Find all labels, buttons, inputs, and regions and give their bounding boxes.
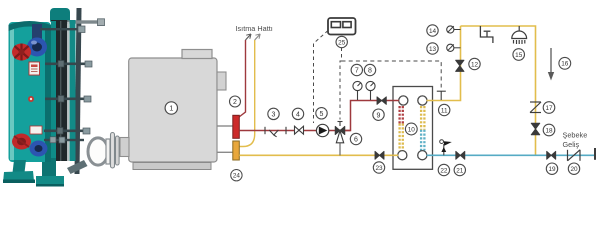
label 15 <box>513 49 525 61</box>
label 18 <box>543 124 555 136</box>
label 21 <box>454 164 465 175</box>
label 8 <box>364 64 375 75</box>
valve 19 <box>547 151 556 159</box>
valve 6 bottom connection wire <box>339 143 341 156</box>
faucet <box>480 26 493 43</box>
mains end tick <box>594 148 596 160</box>
label 10 <box>405 123 417 135</box>
svg-text:19: 19 <box>548 166 556 173</box>
supply header 2 (red bar) <box>233 115 240 138</box>
HX port top-right <box>418 96 427 105</box>
pack top teal cap <box>50 8 70 24</box>
svg-text:12: 12 <box>471 61 479 68</box>
svg-text:8: 8 <box>368 68 372 75</box>
yellow pipe entry stub <box>393 154 399 156</box>
DHW yellow pipe from HX to riser <box>427 26 461 101</box>
mains cold water line <box>427 154 595 156</box>
burner loop pipe <box>88 138 108 165</box>
heat exchanger 10 body <box>393 87 433 170</box>
thermometer 7 <box>353 81 362 100</box>
front leg and foot <box>12 160 26 177</box>
HX port bottom-left <box>398 151 407 160</box>
valve 12 (vertical) <box>456 60 464 71</box>
label 11 <box>439 104 450 115</box>
heating supply riser (red) <box>239 34 251 117</box>
svg-text:6: 6 <box>354 137 358 144</box>
svg-text:15: 15 <box>515 52 523 59</box>
boiler base plinth <box>133 163 211 170</box>
boiler 1 <box>129 58 217 162</box>
front plate <box>9 22 52 162</box>
controller 25 <box>328 18 356 35</box>
small white label upper <box>29 62 40 75</box>
tie bolt 3 <box>44 128 90 135</box>
svg-text:10: 10 <box>408 126 416 133</box>
label 6 <box>350 133 361 144</box>
svg-text:9: 9 <box>377 112 381 119</box>
svg-text:4: 4 <box>296 112 300 119</box>
three-way valve 6 <box>335 122 345 143</box>
svg-text:16: 16 <box>561 61 569 68</box>
svg-text:3: 3 <box>272 112 276 119</box>
top distribution pipe <box>461 26 536 155</box>
tie bolt 1 <box>45 61 92 68</box>
svg-text:1: 1 <box>169 104 173 113</box>
svg-text:Isıtma Hattı: Isıtma Hattı <box>236 24 273 33</box>
label 14 <box>427 25 438 36</box>
boiler left burner tab <box>111 133 115 169</box>
check valve 20 <box>568 150 581 161</box>
valve 4 <box>295 126 304 134</box>
label 20 <box>568 163 579 174</box>
svg-text:20: 20 <box>570 166 578 173</box>
label 7 <box>351 64 362 75</box>
svg-text:25: 25 <box>338 39 346 46</box>
svg-text:21: 21 <box>456 167 464 174</box>
pump 5 <box>316 124 328 136</box>
svg-text:11: 11 <box>441 107 448 114</box>
label 24 <box>231 170 242 181</box>
yellow return pipe <box>239 154 398 156</box>
valve 9 <box>377 97 386 105</box>
brand logo dot <box>28 96 34 102</box>
svg-text:5: 5 <box>320 111 324 118</box>
bottom red port <box>12 134 31 150</box>
top carrying bar <box>66 20 99 23</box>
label 5 <box>316 108 327 119</box>
label 2 <box>230 96 241 107</box>
boiler supply stub <box>217 125 233 127</box>
air vent 14 <box>447 26 461 33</box>
label 23 <box>373 162 384 173</box>
heating return riser (yellow) <box>240 34 261 147</box>
HX port bottom-right <box>418 151 427 160</box>
air vent 13 <box>447 44 461 51</box>
sample point 22 <box>440 140 452 156</box>
svg-text:17: 17 <box>545 105 553 112</box>
label 13 <box>427 43 438 54</box>
svg-text:18: 18 <box>545 127 553 134</box>
small white label lower <box>30 126 42 134</box>
control wire to valve 6 <box>340 48 342 120</box>
red pipe entry stub <box>393 100 400 102</box>
return header 24 (amber bar) <box>233 141 240 160</box>
red pipe riser to HX <box>345 101 400 131</box>
HX plates hot side <box>400 106 403 151</box>
HX port top-left <box>399 96 408 105</box>
check valve 17 <box>530 102 541 113</box>
red supply pipe <box>239 130 350 132</box>
boiler return stub <box>217 151 233 153</box>
label 22 <box>438 164 449 175</box>
valve 18 (vertical) <box>531 123 540 135</box>
boiler right tab <box>217 72 226 90</box>
top bolt row <box>40 26 85 33</box>
svg-text:14: 14 <box>429 28 437 35</box>
boiler chimney <box>182 50 212 59</box>
bottom blue port <box>30 141 48 157</box>
label 9 <box>373 109 384 120</box>
label 4 <box>292 108 303 119</box>
svg-text:7: 7 <box>355 68 359 75</box>
valve 23 <box>375 151 384 159</box>
svg-text:Şebeke: Şebeke <box>563 131 588 140</box>
rear column foot <box>67 160 88 174</box>
svg-text:2: 2 <box>233 99 237 106</box>
svg-text:23: 23 <box>375 165 383 172</box>
sensor 11 <box>437 91 446 100</box>
top blue port flange <box>27 38 47 57</box>
top red port valve <box>12 44 31 61</box>
rear support column <box>75 8 82 174</box>
label 17 <box>543 102 555 114</box>
label 3 <box>268 108 279 119</box>
tie bolt 2 <box>45 96 91 103</box>
control wire to sensor 11 <box>342 61 442 88</box>
label 19 <box>546 163 557 174</box>
svg-text:22: 22 <box>440 167 448 174</box>
label 25 <box>336 36 347 47</box>
strainer 3 <box>265 127 286 137</box>
label 12 <box>469 58 480 69</box>
tie bolt 4 low <box>44 137 84 143</box>
rear pressure plate <box>70 20 76 161</box>
control wire to pump <box>314 31 329 124</box>
svg-text:24: 24 <box>233 173 241 180</box>
HX plates cold side <box>421 106 424 151</box>
valve 21 <box>456 151 465 159</box>
plate pack <box>51 20 67 161</box>
rear leg <box>42 158 56 181</box>
label 1 <box>165 102 177 114</box>
thermometer 8 <box>366 81 375 100</box>
shower 15 <box>512 26 527 44</box>
flow arrow 16 <box>548 48 554 81</box>
svg-text:Geliş: Geliş <box>563 140 580 149</box>
label 16 <box>559 57 571 69</box>
top blue port cap <box>32 24 42 39</box>
svg-text:13: 13 <box>429 46 437 53</box>
